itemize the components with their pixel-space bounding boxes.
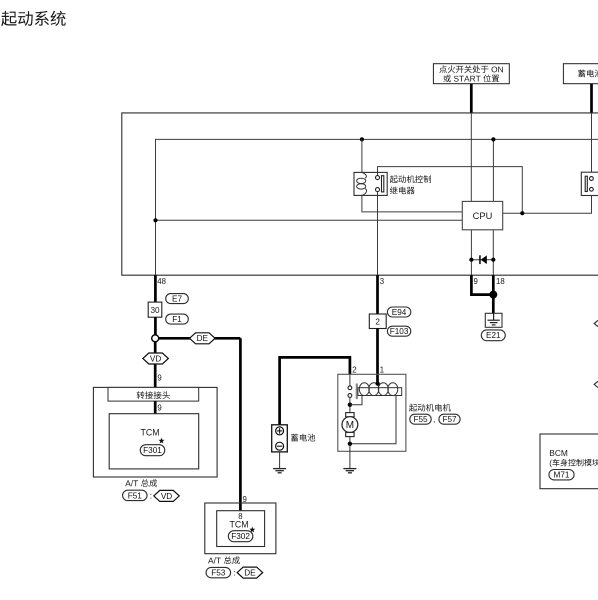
wire DE drop to TCM F302 (239, 338, 242, 510)
starter motor M (342, 413, 358, 437)
wire contact to motor junction (349, 397, 351, 412)
svg-text:18: 18 (496, 277, 505, 286)
svg-text:VD: VD (161, 492, 172, 501)
starter motor box (338, 374, 406, 451)
BCM box (540, 434, 598, 489)
footnote star (249, 527, 255, 533)
svg-text:CPU: CPU (473, 211, 493, 221)
connector id F1 (166, 314, 189, 324)
wire CPU pin18 inside block (492, 230, 494, 275)
starter control relay (354, 172, 387, 195)
bus wire inside block (156, 139, 598, 275)
off-page connector arrow upper (594, 320, 598, 326)
footnote star (159, 438, 165, 444)
wire joint connector to TCM F301 (154, 401, 157, 414)
svg-text:2: 2 (375, 318, 380, 327)
svg-text:F55: F55 (413, 415, 428, 424)
ground below starter (343, 469, 356, 473)
connector id E94 (387, 307, 410, 317)
wire relay coil top (361, 139, 363, 172)
svg-text:TCM: TCM (229, 520, 248, 530)
junction solenoid feed (375, 381, 379, 385)
ignition box text line1 (439, 65, 503, 73)
battery source box top-right (563, 64, 598, 84)
wire splice to DE corner (159, 337, 241, 340)
wire bus to CPU top (492, 139, 494, 201)
starter solenoid switch contacts (348, 386, 352, 398)
svg-text:E21: E21 (486, 331, 501, 340)
wire merge to ground E21 (492, 295, 495, 314)
svg-text:TCM: TCM (140, 428, 159, 438)
svg-text:E94: E94 (392, 308, 407, 317)
junction on bus at CPU drop (491, 137, 495, 141)
junction starter ground (348, 442, 352, 446)
tag VD (143, 353, 169, 364)
wire diode link (471, 259, 493, 261)
wire pin18 to merge (492, 275, 495, 294)
svg-text:DE: DE (197, 334, 209, 343)
svg-text:9: 9 (157, 374, 161, 383)
battery (272, 425, 288, 452)
connector id E7 (166, 294, 189, 304)
title 起动系统 (1, 11, 66, 26)
wire connector E94 to starter (376, 329, 379, 384)
inline connector square pin2 (369, 314, 386, 329)
wire battery feed thick (590, 84, 593, 114)
splice circle (152, 335, 159, 342)
svg-text:F302: F302 (231, 532, 250, 541)
junction block-left branch (153, 218, 157, 222)
diode across CPU outputs (469, 255, 495, 264)
ground below battery (273, 469, 286, 473)
svg-text:,: , (433, 414, 435, 424)
battery label 蓄电池 (291, 434, 315, 442)
connector id F57 (439, 414, 460, 424)
tag DE under AT box 2 (237, 567, 263, 578)
svg-text:F103: F103 (390, 327, 409, 336)
svg-text:F53: F53 (211, 568, 226, 577)
wire ignition feed thick (470, 84, 473, 114)
AT assembly box (93, 387, 217, 477)
wire CPU right to fusible link (503, 191, 592, 213)
joint connector box 转接接头 (108, 387, 199, 401)
svg-text::: : (150, 490, 152, 500)
wire pin9 to merge (471, 275, 490, 294)
svg-text:48: 48 (157, 277, 166, 286)
battery box text 蓄电池 (578, 70, 598, 78)
relay label line2 继电器 (390, 187, 415, 195)
wire relay contact to CPU net (378, 167, 523, 214)
off-page connector arrow lower (594, 381, 598, 387)
wire solenoid return (350, 396, 396, 444)
ignition switch condition box (433, 64, 509, 84)
connector id F301 (140, 445, 165, 456)
wire 48 to connector (154, 275, 157, 302)
svg-text:F301: F301 (143, 446, 162, 455)
relay label line1 起动机控制 (390, 175, 431, 183)
tag DE (190, 333, 216, 344)
AT assembly caption (125, 479, 157, 487)
inline connector square pin30 (148, 302, 162, 317)
wire pin3 to connector E94 (376, 275, 379, 314)
wire connector to splice (154, 317, 157, 335)
svg-text:VD: VD (150, 354, 161, 363)
wire starter to ground (349, 444, 351, 469)
ignition box text line2 (443, 75, 499, 83)
svg-text:2: 2 (352, 365, 356, 374)
svg-text:F51: F51 (128, 491, 143, 500)
connector id F55 (410, 414, 431, 424)
wire battery negative to ground (279, 452, 281, 469)
connector id F51 (123, 490, 148, 500)
svg-text:9: 9 (474, 277, 478, 286)
wire ignition feed inside block (470, 113, 472, 201)
connector id F302 (228, 531, 253, 542)
connector id E21 (481, 330, 505, 341)
connector id F103 (387, 326, 410, 336)
junction on bus at relay coil (360, 137, 364, 141)
TCM F301 box (109, 414, 199, 469)
joint connector label 转接接头 (137, 391, 170, 399)
wire junction to solenoid plunger (350, 396, 362, 405)
svg-text:1: 1 (380, 365, 384, 374)
svg-text:9: 9 (157, 404, 161, 413)
tag VD under AT box (154, 490, 180, 501)
junction starter contact (348, 403, 352, 407)
wire splice to VD tag (154, 342, 157, 354)
svg-text:F1: F1 (172, 315, 182, 324)
wire battery feed inside block (591, 113, 593, 176)
wire block-left branch to CPU (156, 219, 463, 221)
TCM F302 box (217, 511, 265, 547)
svg-text:3: 3 (380, 277, 384, 286)
wire CPU pin9 inside block (470, 230, 472, 275)
svg-text:M: M (346, 420, 354, 431)
wire VD tag to AT box (154, 362, 157, 387)
BCM caption 车身控制模块 (550, 459, 598, 468)
AT assembly 2 caption (208, 556, 240, 564)
connector id F53 (206, 567, 231, 577)
junction CPU-right net (520, 211, 524, 215)
fuse and relay block outline (122, 113, 598, 275)
svg-text:9: 9 (243, 495, 247, 504)
wire battery positive to starter (280, 357, 350, 424)
svg-text:DE: DE (244, 568, 256, 577)
CPU box (462, 201, 502, 229)
starter label 起动机电机 (409, 404, 451, 412)
wire relay contact to pin3 (377, 192, 379, 276)
svg-text:F57: F57 (442, 415, 457, 424)
fusible link (battery circuit) (581, 172, 598, 195)
svg-text:BCM: BCM (549, 448, 568, 458)
wire motor to ground junction (349, 437, 351, 444)
junction pins 9-18 (489, 291, 497, 299)
wire relay coil return to CPU (362, 195, 462, 212)
chassis ground box E21 (485, 313, 502, 327)
AT assembly box 2 (205, 503, 276, 554)
starter solenoid coil (356, 383, 402, 399)
wire pin2 inside starter (349, 374, 351, 386)
svg-text:E7: E7 (172, 294, 182, 303)
svg-text::: : (233, 568, 235, 578)
svg-text:30: 30 (150, 306, 160, 315)
connector id M71 (549, 470, 574, 480)
svg-text:M71: M71 (554, 471, 570, 480)
